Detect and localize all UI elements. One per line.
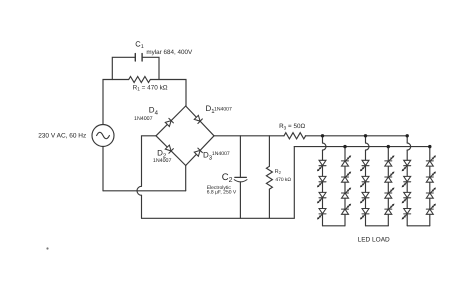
node junction col6 [428, 145, 431, 148]
wire bridge left vertex stub [142, 136, 157, 187]
node junction col4 [387, 145, 390, 148]
wire positive rail from bridge right vertex [214, 135, 284, 137]
LED [360, 192, 369, 203]
svg-text:R1 = 470 kΩ: R1 = 470 kΩ [133, 84, 168, 92]
wire C2 branch bottom [239, 182, 241, 219]
wire AC top to R1 rail [103, 80, 129, 125]
node junction col3 [364, 134, 367, 137]
capacitor C2 top plate [235, 176, 247, 178]
LED [402, 176, 411, 187]
LED [385, 188, 395, 199]
bridge edge wire L-T [156, 106, 186, 136]
svg-text:D4: D4 [149, 106, 159, 117]
LED [385, 204, 395, 215]
wire R2 branch top [268, 136, 270, 167]
wire bottom U group 2 [366, 225, 389, 227]
diode D2 1N4007 [165, 145, 173, 153]
wire LED column 1 [322, 150, 324, 226]
wire hop col3 over return rail [366, 143, 370, 150]
resistor R3 zigzag [284, 133, 306, 139]
node junction col2 [343, 145, 346, 148]
svg-text:1N4007: 1N4007 [153, 158, 172, 164]
bridge edge wire T-R [186, 106, 214, 136]
LED [342, 204, 352, 215]
bridge edge wire B-R [186, 136, 214, 166]
LED [342, 172, 352, 183]
LED [426, 172, 436, 183]
bridge edge wire L-B [156, 136, 186, 166]
wire LED column 6 [429, 147, 431, 226]
wire AC neutral horizontal [103, 190, 186, 192]
svg-text:1N4007: 1N4007 [212, 151, 230, 157]
LED [402, 160, 411, 171]
LED [342, 155, 352, 166]
LED [385, 172, 395, 183]
wire LED column 5 [406, 150, 408, 226]
svg-text:230 V AC, 60 Hz: 230 V AC, 60 Hz [38, 133, 86, 140]
resistor R2 zigzag [266, 166, 272, 189]
LED [426, 188, 436, 199]
LED [402, 209, 411, 220]
wire LED column 4 [387, 147, 389, 226]
wire neutral up to bridge bottom vertex [185, 166, 187, 191]
wire negative return up [293, 147, 295, 219]
wire LED column 3 top [365, 136, 367, 143]
wire C1 branch left [112, 57, 135, 79]
diode D4 1N4007 [165, 118, 173, 126]
svg-text:470 kΩ: 470 kΩ [275, 177, 291, 183]
wire hop col5 over return rail [407, 143, 411, 150]
wire R2 branch bottom [268, 189, 270, 218]
svg-text:1N4007: 1N4007 [134, 116, 153, 122]
wire left vertical to bottom rail [141, 195, 143, 218]
diode D1 1N4007 [194, 115, 202, 123]
wire C1 branch right [143, 57, 160, 79]
wire LED return rail [294, 146, 430, 148]
LED [360, 160, 369, 171]
LED [317, 160, 326, 171]
LED [317, 176, 326, 187]
LED [385, 155, 395, 166]
wire LED column 5 top [406, 136, 408, 143]
svg-text:LED LOAD: LED LOAD [358, 236, 390, 243]
wire AC bottom to neutral [102, 147, 104, 191]
wire hop col1 over return rail [323, 143, 327, 150]
LED [402, 192, 411, 203]
node junction col5 [406, 134, 409, 137]
stray scan speck [46, 247, 48, 249]
LED [426, 204, 436, 215]
LED [317, 192, 326, 203]
wire LED column 2 [344, 147, 346, 226]
wire hop over neutral [137, 186, 142, 195]
capacitor C2 curved plate [234, 180, 247, 182]
svg-text:mylar 684, 400V: mylar 684, 400V [146, 49, 193, 56]
wire positive rail to LED block [305, 135, 407, 137]
svg-text:C1: C1 [135, 40, 143, 51]
svg-text:R3 = 50Ω: R3 = 50Ω [279, 123, 305, 130]
wire C2 branch top [239, 136, 241, 178]
sine wave inside source [97, 132, 110, 138]
wire LED column 3 [365, 150, 367, 226]
svg-text:C2: C2 [222, 172, 233, 184]
wire bottom negative rail [142, 217, 295, 219]
node junction col1 [321, 134, 324, 137]
LED [317, 209, 326, 220]
wire bottom U group 3 [407, 225, 430, 227]
LED [360, 209, 369, 220]
wire bottom U group 1 [323, 225, 346, 227]
wire LED column 1 top [322, 136, 324, 143]
svg-text:1N4007: 1N4007 [214, 106, 232, 112]
LED [426, 155, 436, 166]
svg-text:R2: R2 [275, 169, 282, 175]
AC source V1 230V 60Hz [92, 125, 114, 147]
LED [360, 176, 369, 187]
wire R1 to bridge top [151, 80, 187, 107]
capacitor C1 plates [134, 54, 136, 61]
LED [342, 188, 352, 199]
svg-text:6.8 µF, 250 V: 6.8 µF, 250 V [207, 190, 237, 196]
resistor R1 zigzag [129, 77, 151, 83]
diode D3 1N4007 [194, 148, 202, 156]
